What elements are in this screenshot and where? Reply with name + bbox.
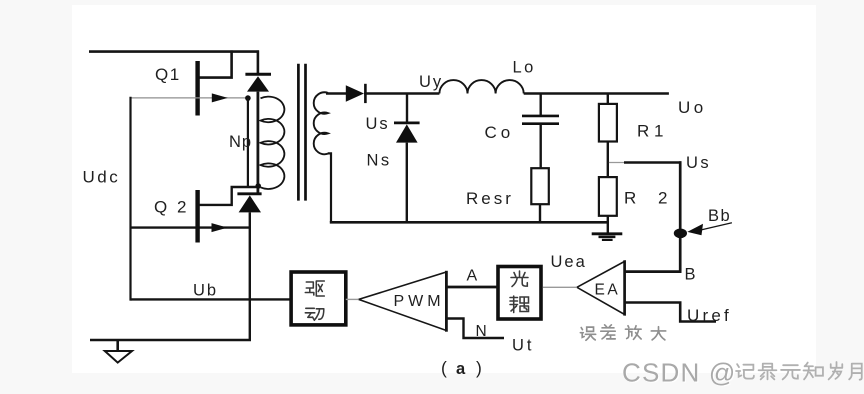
svg-text:Lo: Lo	[513, 59, 536, 77]
resistor R1 top lead	[607, 94, 609, 105]
arrow on Q2 line	[212, 223, 228, 232]
wire: Q1 drain step to rail	[200, 50, 232, 77]
svg-text:Ns: Ns	[367, 152, 392, 170]
ground (left) stem	[116, 340, 119, 351]
svg-text:Us: Us	[366, 115, 390, 133]
wire: N sawtooth input step	[446, 319, 504, 339]
freewheel diode Us: top lead	[406, 94, 408, 122]
wire: rail drop to clamp diode D1	[257, 50, 260, 75]
wire: primary left conductor node A to node B	[247, 98, 249, 187]
svg-text:CSDN @: CSDN @	[622, 358, 737, 388]
freewheel diode triangle	[396, 124, 418, 142]
optocoupler box 光耦	[498, 267, 541, 320]
svg-text:Uea: Uea	[551, 253, 587, 271]
svg-text:Uo: Uo	[678, 98, 707, 117]
svg-text:PWM: PWM	[394, 293, 445, 310]
wire: main output line right part	[524, 92, 669, 94]
glyph 光	[511, 271, 528, 287]
wire: A line from PWM to optocoupler	[446, 286, 498, 289]
wire: top positive rail	[89, 50, 259, 53]
wire: feedback tap from R1/R2 junction (gray start)	[609, 162, 626, 164]
wire: Ub line from left rail to drive box	[131, 298, 292, 300]
wire: feedback tap horizontal	[624, 161, 681, 163]
comparator PWM right edge	[445, 271, 448, 332]
svg-text:): )	[476, 358, 482, 378]
wire: Q1 gate/source line (gray) from left rail to node A	[131, 97, 248, 99]
op-amp EA triangle	[577, 261, 625, 314]
wire: Uref input step	[625, 303, 716, 322]
driver box 驱动	[291, 272, 346, 325]
diode D1 triangle	[247, 76, 269, 91]
wire: R1 to R2 link	[607, 142, 609, 178]
wire: secondary bottom lead	[328, 153, 331, 222]
svg-text:(: (	[441, 358, 447, 378]
svg-text:R: R	[624, 189, 636, 208]
capacitor Co bottom lead	[540, 124, 542, 169]
capacitor Co plates	[522, 115, 559, 118]
wire: primary axis from D1 down to D2 bar	[256, 92, 259, 194]
node B junction dot	[255, 183, 261, 189]
svg-text:Ub: Ub	[193, 282, 218, 300]
svg-text:2: 2	[658, 189, 667, 208]
svg-text:EA: EA	[595, 282, 621, 299]
wire: left vertical rail	[129, 97, 131, 301]
arrow on Q1 line	[212, 93, 228, 102]
resistor R2 body	[599, 177, 617, 216]
transistor Q2 bar	[195, 190, 199, 243]
inductor Lo	[439, 80, 523, 93]
ground (left) open triangle	[105, 351, 132, 363]
watermark CJK 记录无知岁月	[736, 362, 862, 380]
resistor Resr body	[531, 168, 549, 204]
svg-text:B: B	[685, 266, 696, 284]
glyph 动	[305, 308, 324, 320]
wire: B input line to EA	[625, 270, 682, 273]
svg-text:Q1: Q1	[155, 65, 181, 84]
svg-text:Resr: Resr	[466, 189, 514, 208]
diode D2 (bottom clamp): cathode bar	[237, 192, 261, 195]
op-amp EA right edge	[623, 260, 626, 315]
wire: secondary top lead	[326, 92, 347, 94]
Bb pointer arrowhead	[687, 224, 703, 235]
wire: bottom rail (secondary side)	[330, 221, 608, 224]
wire: R2 bottom lead to ground	[607, 216, 609, 234]
svg-text:Us: Us	[686, 154, 711, 172]
svg-text:Uref: Uref	[687, 306, 732, 325]
glyph 耦	[510, 296, 529, 313]
rectifier diode triangle	[346, 85, 364, 101]
wire: gray link driver to PWM apex	[346, 298, 359, 300]
glyph 驱	[305, 281, 324, 296]
Bb pointer line	[698, 223, 732, 231]
node Bb junction dot	[674, 229, 687, 239]
transistor Q1 bar	[195, 61, 199, 116]
winding Ns secondary loops	[314, 92, 328, 154]
svg-text:2: 2	[177, 198, 186, 217]
winding Np primary loops	[261, 97, 285, 189]
rectifier diode cathode bar	[364, 84, 367, 103]
svg-text:Np: Np	[229, 133, 252, 151]
svg-text:Ut: Ut	[512, 337, 535, 355]
node A junction dot	[245, 95, 251, 101]
wire: main output line left part	[364, 92, 439, 94]
comparator PWM triangle	[359, 272, 447, 331]
svg-text:A: A	[467, 268, 478, 285]
wire: D2 anode lead down, corner left along bottom	[90, 212, 250, 340]
resistor R1 body	[599, 104, 617, 142]
diode D1 (top clamp): cathode bar	[245, 73, 271, 76]
svg-text:N: N	[476, 323, 487, 340]
svg-text:Co: Co	[485, 123, 515, 142]
label 误差放大 (error amplification, gray)	[580, 325, 665, 340]
wire: Q2 drain step to node B	[200, 187, 259, 205]
svg-text:Udc: Udc	[83, 168, 121, 187]
svg-text:a: a	[456, 360, 466, 378]
svg-text:Bb: Bb	[708, 207, 731, 225]
wire: EA output (gray) to optocoupler	[543, 286, 577, 288]
transformer core lines	[297, 64, 300, 201]
svg-text:R: R	[637, 122, 649, 141]
svg-text:1: 1	[654, 122, 663, 141]
svg-text:Q: Q	[154, 198, 167, 217]
wire: Resr bottom lead	[539, 204, 541, 223]
wire: Q2 gate/source line from left rail	[131, 226, 250, 228]
wire: freewheel diode anode lead to bottom rail	[406, 143, 408, 224]
wire: feedback vertical down to B corner	[679, 161, 682, 271]
capacitor Co: top lead	[540, 94, 542, 116]
freewheel diode cathode bar	[394, 122, 420, 125]
ground (right) three bars	[592, 232, 623, 235]
diode D2 triangle	[239, 195, 261, 212]
